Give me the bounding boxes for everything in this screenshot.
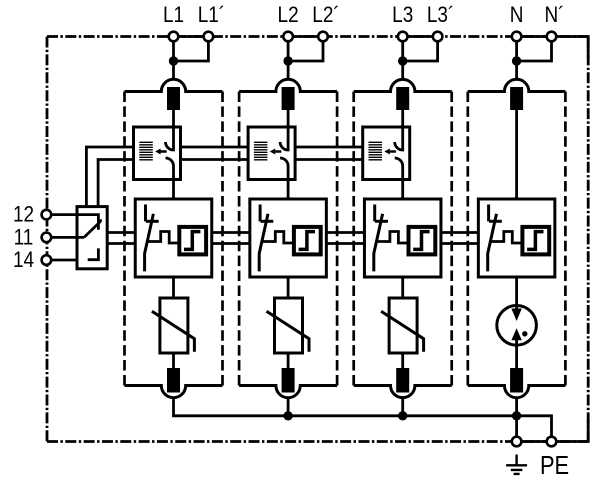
wire: L2 from upper disconnector into trigger unit (287, 110, 290, 128)
varistor L2 (275, 298, 303, 353)
wire: L1 control unit to varistor (172, 277, 175, 298)
trigger unit L2: spark gap upper electrode (hooked conductor) (280, 127, 288, 150)
switching spark gap / control unit box L3 (364, 199, 441, 277)
module N: top edge with conductor pass-through arch (468, 79, 566, 91)
control unit L2: isolating contact tick (259, 205, 262, 222)
varistor L3 (389, 298, 417, 353)
terminal 12 (42, 210, 52, 220)
spark-gap trigger unit box L3 (363, 127, 410, 180)
terminal PE&#180; (547, 437, 557, 447)
disconnector (thermal) upper L3: filled bar (396, 87, 409, 110)
svg-text:L1: L1 (163, 4, 184, 27)
control unit L2: trigger pulse line (262, 232, 294, 244)
disconnector (thermal) lower L3: filled bar (396, 368, 409, 393)
terminal L3&#180; (433, 32, 443, 42)
control unit N: step-function glyph (527, 232, 543, 250)
terminal PE (under N) (512, 437, 522, 447)
control unit N: isolating contact tick (487, 205, 490, 222)
svg-text:N: N (510, 4, 524, 27)
trigger unit L2: arrow to trigger electrode (275, 150, 281, 153)
wire: jumper along top edge N to N&#180; (517, 35, 552, 38)
wire: jumper along top edge L3 to L3&#180; (403, 35, 438, 38)
wire: N&#180; jumper down to junction (517, 41, 552, 61)
control unit L3: isolating contact tick (373, 205, 376, 222)
terminal L2&#180; (318, 32, 328, 42)
switching spark gap / control unit box L2 (250, 199, 327, 277)
control unit L3: trigger pulse line (377, 232, 409, 244)
disconnector (thermal) lower L1: filled bar (167, 368, 180, 393)
wire: L3 drop from terminal to module arch (401, 41, 404, 80)
node: PE bus junction L3 (398, 411, 407, 420)
wire: L3 varistor to lower disconnector (401, 353, 404, 368)
wire: N drop from module arch to PE bus and PE terminal (515, 398, 518, 437)
wire: terminal 14 lead (52, 259, 78, 262)
terminal 14 (42, 255, 52, 265)
disconnector (thermal) lower N: filled bar (510, 368, 523, 393)
control unit L2: electronic trigger box (294, 227, 321, 255)
svg-text:N´: N´ (544, 4, 564, 27)
wire: L2 drop from terminal to module arch (287, 41, 290, 80)
spark-gap trigger unit box L2 (248, 127, 295, 180)
terminal 11 (42, 233, 52, 243)
wire: L3 drop from module arch to PE bus (401, 398, 404, 416)
trigger unit L3: spark gap lower electrode (hooked conductor) (395, 158, 403, 199)
wire: N control unit to N-PE spark gap (515, 277, 518, 309)
module L2: top edge with conductor pass-through arch (239, 79, 337, 91)
wire: bottom-right corner solid segment from PE terminals (517, 419, 589, 442)
control unit L1: isolating contact tick (144, 205, 147, 222)
module L1: bottom edge with conductor pass-through arch (125, 386, 223, 398)
wire: control bus upper (links monitoring units of all poles) (107, 231, 478, 234)
control unit L3: step-function glyph (413, 232, 429, 250)
varistor L1 (160, 298, 188, 353)
disconnector (thermal) lower L2: filled bar (282, 368, 295, 393)
wire: jumper along top edge L1 to L1&#180; (174, 35, 209, 38)
wire: trigger bus upper (remote contact box to spark-gap trigger units) (86, 147, 410, 207)
control unit L1: switch blade (145, 214, 154, 272)
protection module L1: dashed side boundaries (123, 92, 126, 386)
disconnector (thermal) upper L2: filled bar (282, 87, 295, 110)
protection module L3: dashed side boundaries (352, 92, 355, 386)
N-PE gas discharge spark gap: circle (497, 306, 537, 346)
node: junction L1/L1&#180; (169, 56, 178, 65)
module L2: bottom edge with conductor pass-through arch (239, 386, 337, 398)
wire: L1 drop from terminal to module arch (172, 41, 175, 80)
trigger unit L1: spark gap lower electrode (hooked conductor) (166, 158, 174, 199)
control unit N: trigger pulse line (490, 232, 522, 244)
control unit N: electronic trigger box (522, 227, 549, 255)
wire: N-PE spark gap to lower disconnector (515, 340, 518, 368)
wire: L3 control unit to varistor (401, 277, 404, 298)
trigger unit L2: spark gap lower electrode (hooked conductor) (280, 158, 288, 199)
svg-text:11: 11 (14, 226, 34, 249)
terminal N&#180; (547, 32, 557, 42)
wire: terminal 12 lead and NC contact (52, 215, 99, 230)
control unit L1: trigger pulse line (147, 232, 179, 244)
node: junction N/N&#180; (512, 56, 521, 65)
enclosure: device boundary bottom edge (dash-dot) (47, 440, 588, 443)
svg-text:L3´: L3´ (427, 4, 454, 27)
wire: L1&#180; jumper down to junction (174, 41, 209, 61)
control unit L2: step-function glyph (299, 232, 315, 250)
svg-text:L2: L2 (278, 4, 299, 27)
protection module L2: dashed side boundaries (238, 92, 241, 386)
trigger unit L1: spark gap upper electrode (hooked conductor) (166, 127, 174, 150)
terminal L3 (398, 32, 408, 42)
wire: L2 varistor to lower disconnector (287, 353, 290, 368)
node: PE bus junction N (512, 411, 521, 420)
wire: L3&#180; jumper down to junction (403, 41, 438, 61)
control unit L2: switch blade (259, 214, 268, 272)
trigger unit L3: trigger electrode block (hatched) (369, 142, 383, 160)
svg-text:12: 12 (13, 203, 34, 226)
changeover contact blade (11 to 12) (84, 222, 100, 238)
svg-text:L3: L3 (392, 4, 413, 27)
terminal L1&#180; (204, 32, 214, 42)
spark-gap trigger unit box L1 (134, 127, 181, 180)
wire: trigger bus lower (98, 160, 410, 207)
svg-text:L1´: L1´ (198, 4, 225, 27)
trigger unit L1: trigger electrode block (hatched) (139, 142, 153, 160)
wire: control bus lower (107, 242, 478, 245)
switching spark gap / control unit box L1 (135, 199, 212, 277)
module L1: top edge with conductor pass-through arch (125, 79, 223, 91)
control unit L3: switch blade (374, 214, 383, 272)
node: PE bus junction L2 (283, 411, 292, 420)
node: junction L3/L3&#180; (398, 56, 407, 65)
control unit L3: electronic trigger box (409, 227, 436, 255)
module L3: bottom edge with conductor pass-through arch (354, 386, 452, 398)
module L3: top edge with conductor pass-through arch (354, 79, 452, 91)
disconnector (thermal) upper N: filled bar (510, 87, 523, 110)
remote signalling changeover contact box (77, 207, 107, 269)
trigger unit L3: arrow to trigger electrode (390, 150, 396, 153)
wire: terminal 11 common lead (52, 236, 85, 239)
control unit N: switch blade (488, 214, 497, 272)
control unit L1: step-function glyph (184, 232, 200, 250)
terminal L1 (169, 32, 179, 42)
wire: common PE bus along bottom (174, 398, 552, 436)
enclosure: device boundary left edge (dash-dot) (46, 37, 49, 442)
terminal L2 (283, 32, 293, 42)
NO contact 14 (open) (88, 248, 99, 259)
wire: L3 from upper disconnector into trigger unit (401, 110, 404, 128)
wire: L1 varistor to lower disconnector (172, 353, 175, 368)
svg-text:L2´: L2´ (312, 4, 339, 27)
svg-text:PE: PE (540, 451, 569, 480)
wire: L1 from upper disconnector into trigger unit (172, 110, 175, 128)
disconnector (thermal) upper L1: filled bar (167, 87, 180, 110)
trigger unit L2: trigger electrode block (hatched) (254, 142, 268, 160)
wire: N drop from terminal to module arch (515, 41, 518, 80)
wire: L2 drop from module arch to PE bus (287, 398, 290, 416)
N-PE spark gap: upper electrode arrow (511, 309, 521, 322)
terminal N (512, 32, 522, 42)
wire: L2 control unit to varistor (287, 277, 290, 298)
wire: L2&#180; jumper down to junction (288, 41, 323, 61)
N-PE spark gap: gas-filled indicator dot (522, 331, 527, 336)
wire: top-right corner solid segment from N&#180; (552, 37, 589, 59)
control unit L1: electronic trigger box (179, 227, 206, 255)
trigger unit L3: spark gap upper electrode (hooked conductor) (395, 127, 403, 150)
node: junction L2/L2&#180; (283, 56, 292, 65)
protection module N: dashed side boundaries (466, 92, 469, 386)
trigger unit L1: arrow to trigger electrode (161, 150, 167, 153)
enclosure: device boundary top edge (dash-dot) (47, 35, 588, 38)
enclosure: device boundary right edge (dash-dot) (587, 37, 590, 442)
ground symbol (PE earth) (506, 455, 527, 474)
svg-text:14: 14 (13, 249, 34, 272)
switching spark gap / control unit box N (478, 199, 554, 277)
N-PE spark gap: lower electrode arrow (511, 328, 521, 340)
module N: bottom edge with conductor pass-through arch (468, 386, 566, 398)
wire: jumper along top edge L2 to L2&#180; (288, 35, 323, 38)
